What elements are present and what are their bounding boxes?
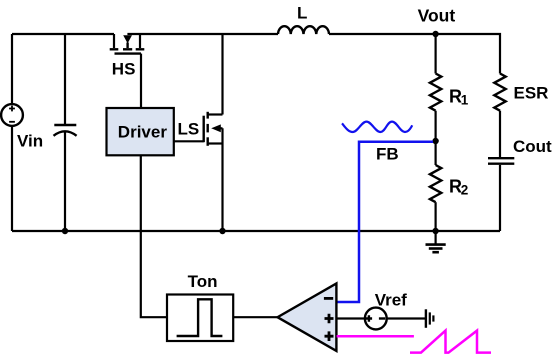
ground symbol (earth)	[426, 231, 446, 252]
wire: comparator noninverting input 2 (magenta ramp input)	[337, 335, 414, 338]
resistor ESR	[494, 74, 505, 111]
svg-text:1: 1	[461, 93, 469, 108]
ripple waveform (blue sine) at FB	[342, 122, 412, 132]
ground symbol (rotated) at Vref	[426, 309, 434, 328]
wire: left vertical from top rail to Vin source	[11, 34, 13, 104]
wire: comparator output to Ton box	[233, 316, 277, 318]
svg-text:Driver: Driver	[118, 122, 168, 141]
wire: top rail middle segment (switch node to inductor)	[127, 33, 278, 35]
wire: FB node to R2	[435, 141, 437, 165]
svg-text:2: 2	[461, 183, 469, 198]
node FB junction dot	[432, 138, 438, 144]
wire: input cap bottom lead	[64, 133, 66, 232]
svg-text:Vref: Vref	[375, 291, 407, 310]
wire: left vertical from Vin source to bottom rail	[11, 126, 13, 231]
wire: Vout down to R1	[435, 34, 437, 74]
wire: top rail right segment (inductor to Vout and ESR branch)	[329, 34, 500, 74]
node: junction dot input cap / ground rail	[62, 228, 68, 234]
wire: Cout to ground rail	[499, 165, 501, 231]
svg-text:Vin: Vin	[17, 132, 43, 151]
transistor Q1 HS mosfet	[110, 34, 145, 54]
node: junction dot LS source / ground rail	[219, 228, 225, 234]
wire: R1 to FB node	[435, 111, 437, 141]
svg-text:L: L	[297, 4, 307, 23]
wire: input cap top lead	[64, 34, 66, 124]
svg-text:ESR: ESR	[514, 83, 549, 102]
wire: driver to LS gate	[174, 140, 204, 142]
Ton one-shot box	[167, 295, 233, 342]
node: ground-rail junction dot below R2	[432, 228, 438, 234]
wire: top rail left segment (Vin to HS drain)	[12, 33, 114, 35]
voltage source Vin	[1, 104, 23, 126]
label R2	[449, 176, 468, 197]
wire: comparator noninverting input 1 to Vref	[337, 317, 365, 319]
label R1	[449, 86, 469, 107]
wire: R2 to ground rail	[435, 202, 437, 231]
wire: Vref to ground	[387, 317, 426, 319]
capacitor Cout	[488, 158, 514, 164]
svg-text:Vout: Vout	[418, 6, 456, 26]
svg-text:Cout: Cout	[513, 137, 552, 156]
node Vout junction dot	[432, 31, 438, 37]
wire: ESR to Cout	[499, 111, 501, 157]
svg-text:HS: HS	[112, 60, 136, 79]
wire: HS gate to driver	[140, 54, 142, 108]
transistor Q2 LS mosfet	[204, 112, 223, 146]
svg-text:Ton: Ton	[188, 272, 218, 291]
wire: driver output down to Ton box	[141, 155, 167, 317]
resistor R1	[430, 74, 441, 111]
capacitor Cin	[54, 125, 77, 136]
driver U1	[107, 108, 174, 155]
wire: bottom ground rail	[12, 230, 500, 232]
op-amp U2 comparator	[278, 283, 337, 351]
voltage source Vref	[365, 308, 387, 330]
wire: LS drain up to switch node	[221, 34, 223, 115]
ramp waveform (magenta sawtooth)	[410, 331, 491, 353]
wire: LS source down to ground rail	[221, 128, 223, 231]
svg-text:FB: FB	[376, 145, 399, 164]
wire: FB blue net to comparator inverting input	[337, 142, 433, 302]
svg-text:LS: LS	[178, 119, 200, 138]
resistor R2	[430, 165, 441, 202]
inductor L	[278, 26, 329, 34]
